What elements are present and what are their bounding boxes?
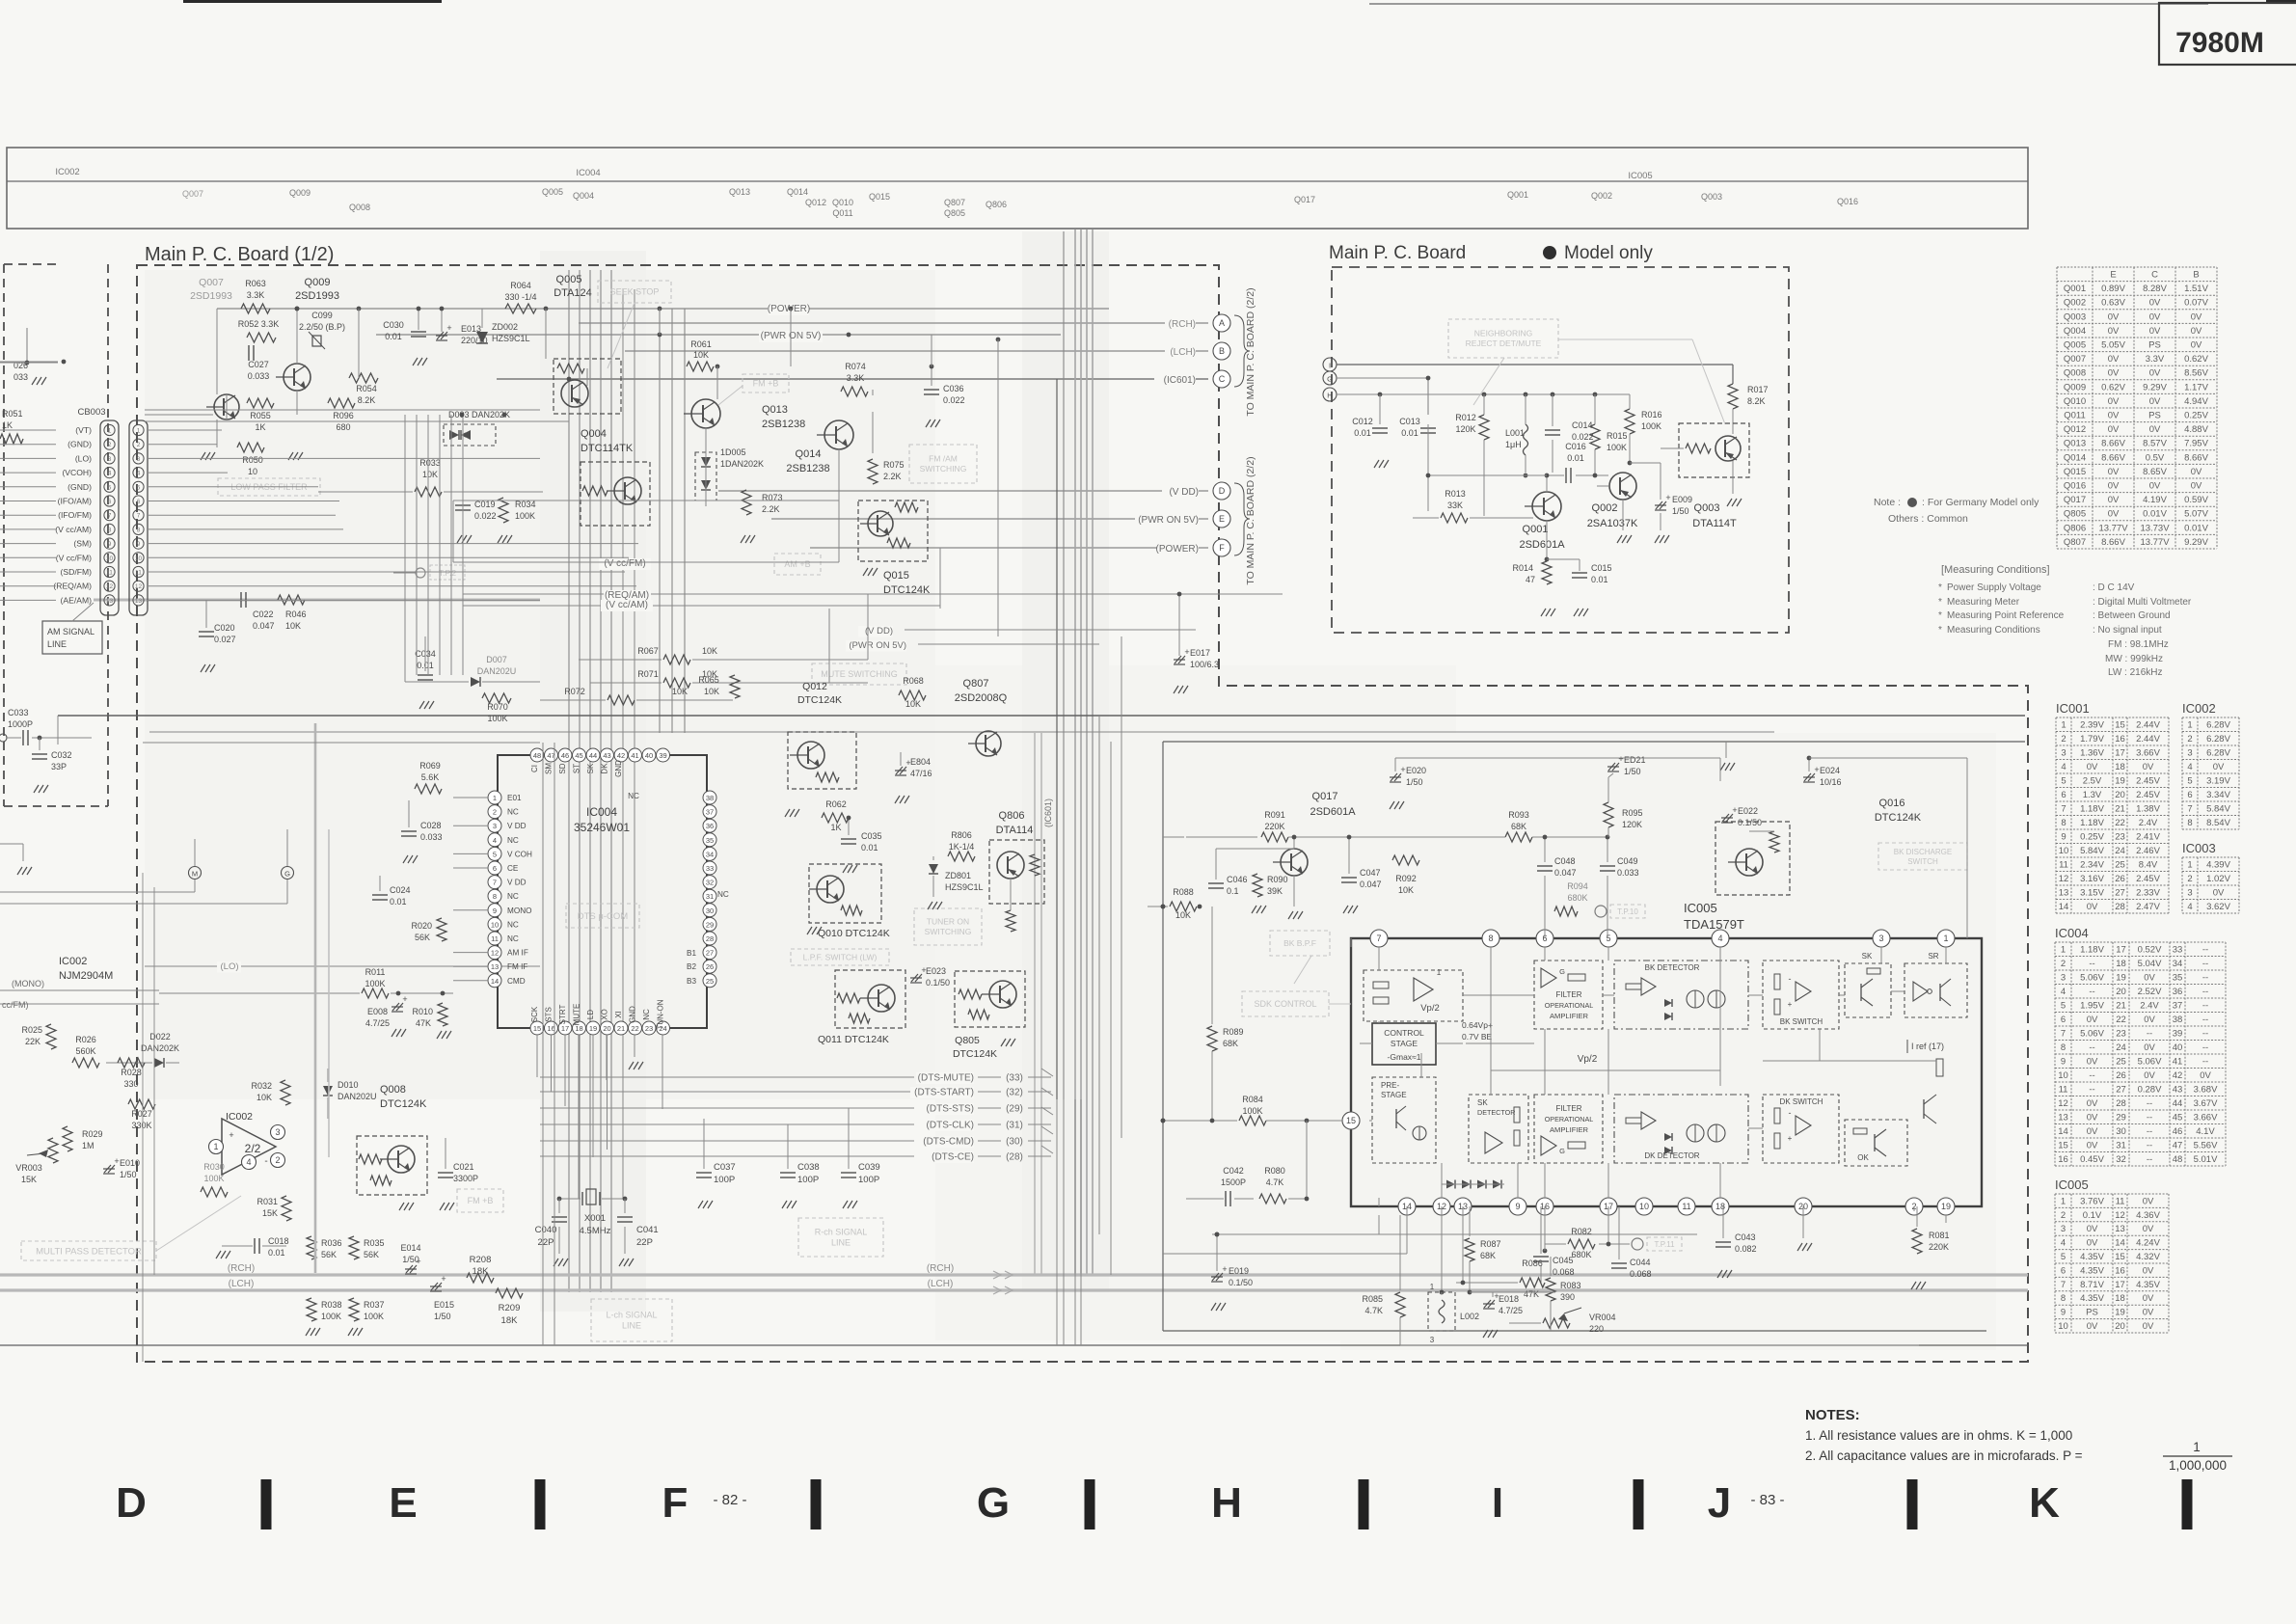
svg-text:1.3V: 1.3V xyxy=(2083,790,2102,800)
capacitor C021 3300P xyxy=(438,1138,478,1210)
resistor R209 18K xyxy=(496,1288,523,1326)
svg-text:3.3K: 3.3K xyxy=(847,373,865,383)
svg-text:16: 16 xyxy=(547,1024,554,1033)
wire vertical bundle bottom xyxy=(1057,1099,1081,1345)
svg-text:R025: R025 xyxy=(21,1025,42,1035)
svg-text:16: 16 xyxy=(2115,734,2125,744)
svg-text:17: 17 xyxy=(2115,1280,2125,1290)
svg-text:Q012: Q012 xyxy=(802,681,827,692)
svg-text:Q011: Q011 xyxy=(2064,411,2086,421)
wire IC005 bottom rail xyxy=(1379,1215,1919,1345)
svg-text:2.44V: 2.44V xyxy=(2136,719,2160,730)
capacitor E009 1/50 xyxy=(1655,463,1692,543)
svg-text:15K: 15K xyxy=(21,1175,37,1184)
svg-text:40: 40 xyxy=(2173,1042,2183,1053)
IC005 SK detector xyxy=(1469,1095,1528,1163)
svg-text:Q009: Q009 xyxy=(305,277,331,288)
capacitor E010 1/50 xyxy=(103,1156,140,1179)
svg-text:20: 20 xyxy=(2115,1321,2125,1332)
resistor R052 3.3K xyxy=(238,319,280,342)
svg-text:FILTER: FILTER xyxy=(1556,1104,1582,1113)
svg-text:+: + xyxy=(1814,765,1819,774)
svg-text:0.01: 0.01 xyxy=(1591,575,1608,584)
capacitor C045 0.068 xyxy=(1533,1206,1575,1283)
connector A xyxy=(1213,314,1230,332)
capacitor C024 0.01 xyxy=(372,876,411,907)
svg-text:7: 7 xyxy=(1376,934,1381,943)
svg-text:9: 9 xyxy=(108,541,112,548)
svg-text:4.24V: 4.24V xyxy=(2136,1238,2160,1249)
resistor R036 56K xyxy=(307,1236,342,1259)
svg-text:B: B xyxy=(2193,270,2199,281)
IC005 label xyxy=(1684,901,1744,932)
label 0.64Vp xyxy=(1462,1020,1493,1042)
capacitor C019 0.022 xyxy=(455,482,497,543)
node H xyxy=(1323,388,1337,401)
svg-text:1: 1 xyxy=(1437,968,1442,977)
svg-text:R080: R080 xyxy=(1264,1166,1285,1176)
svg-text:8: 8 xyxy=(2061,1293,2066,1304)
svg-text:--: -- xyxy=(2202,1015,2208,1025)
svg-text:8.66V: 8.66V xyxy=(2101,537,2125,548)
svg-text:*: * xyxy=(1938,625,1942,636)
svg-text:11: 11 xyxy=(1682,1202,1690,1211)
svg-text:4: 4 xyxy=(2187,902,2192,912)
resistor R071 10K xyxy=(590,669,868,688)
svg-text:R067: R067 xyxy=(637,646,659,656)
connector CB003 pin strips xyxy=(100,420,148,615)
svg-text:R054: R054 xyxy=(356,384,377,393)
svg-text:2.45V: 2.45V xyxy=(2136,874,2160,884)
svg-text:DAN202K: DAN202K xyxy=(141,1043,179,1053)
svg-text:STAGE: STAGE xyxy=(1391,1039,1418,1048)
svg-text:Q805: Q805 xyxy=(944,208,965,218)
IC004 voltage table xyxy=(2055,926,2226,1166)
svg-text:DTC114TK: DTC114TK xyxy=(581,443,634,454)
svg-text:0.027: 0.027 xyxy=(214,635,236,644)
svg-text:R031: R031 xyxy=(257,1197,278,1206)
svg-text:GND: GND xyxy=(629,1006,637,1023)
svg-text:13: 13 xyxy=(106,598,114,605)
svg-text:--: -- xyxy=(2202,972,2208,983)
svg-text:18: 18 xyxy=(2115,1293,2125,1304)
diode pair D003 DAN202K xyxy=(444,410,510,446)
svg-text:10/16: 10/16 xyxy=(1820,777,1842,787)
svg-text:0.01: 0.01 xyxy=(268,1248,285,1258)
note germany text xyxy=(1874,497,2039,525)
bus merge chevrons xyxy=(1041,1069,1053,1153)
ghost L-ch SIGNAL LINE xyxy=(591,1299,672,1341)
svg-text:100K: 100K xyxy=(365,979,385,988)
svg-text:D: D xyxy=(1219,486,1226,496)
capacitor E804 47/16 xyxy=(895,752,932,803)
svg-text:DTC124K: DTC124K xyxy=(1875,812,1922,824)
svg-text:31: 31 xyxy=(706,892,714,901)
svg-text:0V: 0V xyxy=(2143,1196,2154,1206)
svg-text:DK SWITCH: DK SWITCH xyxy=(1780,1097,1823,1106)
svg-text:LINE: LINE xyxy=(831,1238,851,1248)
diode D022 DAN202K xyxy=(106,1032,179,1068)
wire RCH to A xyxy=(579,319,1208,331)
svg-text:+: + xyxy=(1222,1264,1227,1274)
svg-text:3: 3 xyxy=(1878,934,1883,943)
svg-text:22: 22 xyxy=(2115,818,2125,828)
resistor R063 3.3K xyxy=(241,279,270,313)
svg-text:2.5V: 2.5V xyxy=(2083,775,2102,786)
svg-text:--: -- xyxy=(2089,1070,2094,1081)
svg-text:(POWER): (POWER) xyxy=(1156,544,1199,555)
svg-text:Q014: Q014 xyxy=(787,187,808,197)
svg-text:FM /AM: FM /AM xyxy=(929,454,958,464)
capacitor C032 33P xyxy=(32,738,72,793)
svg-text:TUN-ON: TUN-ON xyxy=(657,999,665,1029)
svg-text:E017: E017 xyxy=(1190,648,1210,658)
IC005 BK switch block xyxy=(1763,961,1839,1029)
capacitor C036 0.022 xyxy=(924,366,965,427)
resistor R011 100K xyxy=(159,967,453,998)
svg-text:--: -- xyxy=(2089,987,2094,997)
svg-text:10: 10 xyxy=(2059,846,2069,856)
svg-text:2.2K: 2.2K xyxy=(883,472,902,481)
svg-text:56K: 56K xyxy=(321,1250,337,1259)
svg-text:C014: C014 xyxy=(1572,420,1593,430)
svg-text:(PWR ON 5V): (PWR ON 5V) xyxy=(1138,515,1199,526)
svg-text:4.19V: 4.19V xyxy=(2143,495,2167,505)
svg-text:3.3V: 3.3V xyxy=(2146,354,2165,365)
svg-text:0V: 0V xyxy=(2087,1140,2098,1150)
svg-text:1K: 1K xyxy=(2,420,13,430)
svg-text:25: 25 xyxy=(2116,1056,2126,1067)
svg-text:2SD1993: 2SD1993 xyxy=(190,290,232,302)
node G xyxy=(282,829,294,880)
ground R050 right xyxy=(288,452,303,460)
svg-text:F: F xyxy=(1219,543,1225,553)
svg-text:8.71V: 8.71V xyxy=(2080,1280,2104,1290)
svg-text:18K: 18K xyxy=(501,1315,519,1326)
svg-text:(V DD): (V DD) xyxy=(1169,487,1199,498)
capacitor C047 0.047 xyxy=(1341,837,1382,913)
svg-text:0.022: 0.022 xyxy=(474,511,497,521)
svg-text:-: - xyxy=(264,1156,267,1167)
svg-text:Q009: Q009 xyxy=(289,188,311,198)
svg-text:0V: 0V xyxy=(2200,1070,2211,1081)
svg-text:FM IF: FM IF xyxy=(507,962,527,971)
svg-text:4: 4 xyxy=(137,471,141,477)
capacitor C040 22P xyxy=(535,1199,568,1266)
svg-text:R017: R017 xyxy=(1747,385,1769,394)
svg-text:10K: 10K xyxy=(285,621,301,631)
wire DTS risers xyxy=(537,1035,608,1150)
svg-text:0.7V BE: 0.7V BE xyxy=(1462,1032,1493,1042)
resistor R065 10K xyxy=(698,675,740,698)
AE/AM ghost line xyxy=(94,599,540,602)
svg-text:19: 19 xyxy=(2116,972,2126,983)
svg-text:19: 19 xyxy=(2115,775,2125,786)
svg-text:3: 3 xyxy=(108,456,112,463)
svg-text:29: 29 xyxy=(706,920,714,929)
svg-text:2: 2 xyxy=(2187,874,2192,884)
capacitor E014 1/50 xyxy=(400,1243,420,1274)
svg-text:CONTROL: CONTROL xyxy=(1384,1028,1424,1038)
svg-text:2.2/50 (B.P): 2.2/50 (B.P) xyxy=(299,322,345,332)
svg-text:+: + xyxy=(402,994,407,1004)
svg-text:K: K xyxy=(2029,1479,2060,1527)
svg-text:Q015: Q015 xyxy=(2064,467,2086,477)
germany model dashed box xyxy=(1332,267,1789,633)
svg-text:R064: R064 xyxy=(510,281,531,290)
resistor R062 1K xyxy=(822,799,849,832)
ghost FM +B 2 xyxy=(457,1189,503,1212)
resistor R054 8.2K xyxy=(349,373,378,405)
svg-text:R026: R026 xyxy=(75,1035,96,1044)
transistor Q003 xyxy=(1630,423,1749,529)
svg-text:(DTS-STS): (DTS-STS) xyxy=(927,1104,974,1115)
svg-text:6: 6 xyxy=(493,864,497,873)
svg-text:: For Germany Model only: : For Germany Model only xyxy=(1922,497,2039,508)
svg-text:0V: 0V xyxy=(2108,509,2120,520)
svg-text:2SD1993: 2SD1993 xyxy=(295,290,339,302)
svg-text:1: 1 xyxy=(1943,934,1948,943)
svg-text:9.29V: 9.29V xyxy=(2143,382,2167,392)
svg-text:25: 25 xyxy=(706,977,714,986)
svg-text:6: 6 xyxy=(2187,790,2192,800)
svg-text:--: -- xyxy=(2202,1028,2208,1039)
svg-text:5.07V: 5.07V xyxy=(2184,509,2208,520)
svg-text:5: 5 xyxy=(2061,1252,2066,1262)
svg-text:2: 2 xyxy=(2061,1210,2066,1221)
svg-text:68K: 68K xyxy=(1511,822,1526,831)
svg-text:R065: R065 xyxy=(698,675,719,685)
svg-text:27: 27 xyxy=(2116,1084,2126,1095)
svg-text:1: 1 xyxy=(137,428,141,435)
svg-text:NC: NC xyxy=(507,920,519,929)
svg-text:AMPLIFIER: AMPLIFIER xyxy=(1550,1125,1589,1134)
svg-text:5: 5 xyxy=(1606,934,1610,943)
svg-text:43: 43 xyxy=(603,751,610,760)
svg-text:14: 14 xyxy=(2115,1238,2125,1249)
gray smudge bus left xyxy=(315,723,329,1273)
IC005 SR cell xyxy=(1904,952,1967,1017)
svg-text:E: E xyxy=(2110,270,2116,281)
svg-text:NC: NC xyxy=(507,808,519,817)
svg-text:T.P.10: T.P.10 xyxy=(1617,907,1638,916)
svg-text:330 -1/4: 330 -1/4 xyxy=(504,292,536,302)
svg-text:C035: C035 xyxy=(861,831,882,841)
svg-text:35246W01: 35246W01 xyxy=(574,821,630,834)
svg-text:8.66V: 8.66V xyxy=(2101,439,2125,449)
svg-text:28: 28 xyxy=(2116,1098,2126,1109)
svg-text:680: 680 xyxy=(336,422,350,432)
svg-text:Q002: Q002 xyxy=(2064,298,2086,309)
svg-text:20: 20 xyxy=(2115,790,2125,800)
svg-text:(V cc/AM): (V cc/AM) xyxy=(55,525,92,534)
svg-text:2SB1238: 2SB1238 xyxy=(762,419,805,430)
svg-text:C020: C020 xyxy=(214,623,235,633)
svg-text:8.2K: 8.2K xyxy=(1747,396,1766,406)
svg-text:100K: 100K xyxy=(1242,1106,1262,1116)
resistor R074 3.3K xyxy=(841,362,868,396)
svg-text:C024: C024 xyxy=(390,885,411,895)
svg-text:C042: C042 xyxy=(1223,1166,1244,1176)
resistor R082 680K xyxy=(1545,1227,1682,1259)
resistor R020 56K xyxy=(411,918,446,942)
svg-text:0.01V: 0.01V xyxy=(2143,509,2167,520)
svg-text:(V cc/FM): (V cc/FM) xyxy=(604,558,645,569)
svg-text:0.1: 0.1 xyxy=(1227,886,1239,896)
resistor R064 330-1/4 xyxy=(504,281,536,313)
svg-text:Q013: Q013 xyxy=(762,404,788,416)
svg-text:4: 4 xyxy=(2187,762,2192,772)
svg-text:Q010: Q010 xyxy=(832,198,853,207)
svg-text:15: 15 xyxy=(533,1024,541,1033)
svg-text:10K: 10K xyxy=(702,646,717,656)
svg-text:C018: C018 xyxy=(268,1236,289,1246)
svg-text:15: 15 xyxy=(2115,719,2125,730)
svg-text:--: -- xyxy=(2202,1042,2208,1053)
svg-text:AM IF: AM IF xyxy=(507,949,528,958)
svg-text:R072: R072 xyxy=(564,687,585,696)
svg-text:220K: 220K xyxy=(1929,1242,1949,1252)
svg-text:2.52V: 2.52V xyxy=(2138,987,2162,997)
svg-text:E022: E022 xyxy=(1738,806,1758,816)
svg-text:4.36V: 4.36V xyxy=(2136,1210,2160,1221)
svg-text:--: -- xyxy=(2147,1112,2152,1123)
svg-text:100K: 100K xyxy=(203,1174,224,1183)
svg-text:NC: NC xyxy=(717,890,729,899)
svg-text:19: 19 xyxy=(1941,1202,1951,1211)
svg-text:R075: R075 xyxy=(883,460,905,470)
svg-text:19: 19 xyxy=(589,1024,597,1033)
top interconnect band xyxy=(7,148,2028,229)
svg-text:6: 6 xyxy=(2061,1265,2066,1276)
svg-text:0V: 0V xyxy=(2144,1070,2155,1081)
node I xyxy=(1323,358,1337,371)
svg-text:*: * xyxy=(1938,582,1942,593)
svg-text:Q014: Q014 xyxy=(2064,452,2086,463)
svg-text:0V: 0V xyxy=(2144,972,2155,983)
svg-text:STRT: STRT xyxy=(558,1005,567,1025)
svg-text:E804: E804 xyxy=(910,757,931,767)
svg-text:10: 10 xyxy=(2058,1070,2068,1081)
ghost BK DISCHARGE xyxy=(1878,843,1967,870)
zener ZD002 HZS9C1L xyxy=(476,309,530,343)
capacitor C035 0.01 xyxy=(841,816,882,873)
svg-text:--: -- xyxy=(2202,959,2208,969)
resistor R080 4.7K xyxy=(1259,1121,1307,1204)
svg-text:R806: R806 xyxy=(951,830,972,840)
svg-text:R084: R084 xyxy=(1242,1095,1263,1104)
svg-text:8.28V: 8.28V xyxy=(2143,284,2167,294)
svg-text:Q016: Q016 xyxy=(1879,798,1905,809)
svg-text:41: 41 xyxy=(631,751,638,760)
svg-text:CMD: CMD xyxy=(507,977,526,986)
svg-text:26: 26 xyxy=(2116,1070,2126,1081)
svg-text:R086: R086 xyxy=(1522,1259,1543,1268)
resistor R016 100K xyxy=(1625,394,1662,465)
IC005 BK detector block xyxy=(1614,961,1748,1029)
svg-text:0.033: 0.033 xyxy=(1617,868,1639,878)
capacitor C013 0.01 xyxy=(1399,417,1436,511)
resistor R806 1K-1/4 xyxy=(948,830,975,861)
svg-text:C012: C012 xyxy=(1352,417,1373,426)
measuring conditions text xyxy=(1938,564,2192,678)
svg-text:0.047: 0.047 xyxy=(1360,880,1382,889)
IC005 diode string xyxy=(1442,1180,1504,1189)
svg-text:R089: R089 xyxy=(1223,1027,1244,1037)
DTS control lines xyxy=(540,1072,1051,1163)
svg-text:11: 11 xyxy=(135,570,142,577)
svg-text:(29): (29) xyxy=(1006,1104,1023,1115)
svg-text:21: 21 xyxy=(2116,1000,2126,1011)
svg-text:C049: C049 xyxy=(1617,856,1638,866)
svg-text:--: -- xyxy=(2202,987,2208,997)
svg-text:XI: XI xyxy=(614,1011,623,1018)
capacitor C012 0.01 xyxy=(1352,394,1389,468)
wire Q005 to seek xyxy=(608,303,635,368)
svg-text:0V: 0V xyxy=(2087,1015,2098,1025)
svg-text:C043: C043 xyxy=(1735,1232,1756,1242)
capacitor C042 1500P xyxy=(1186,1166,1254,1206)
svg-text:Q017: Q017 xyxy=(1312,791,1338,802)
svg-text:0V: 0V xyxy=(2087,1126,2098,1137)
svg-text:0.01: 0.01 xyxy=(1401,428,1418,438)
IC005 SK cell xyxy=(1845,952,1891,1017)
svg-text:(32): (32) xyxy=(1006,1088,1023,1098)
svg-text:100P: 100P xyxy=(858,1175,879,1185)
svg-text:TO MAIN P. C. BOARD (2/2): TO MAIN P. C. BOARD (2/2) xyxy=(1245,456,1256,584)
svg-text:Q008: Q008 xyxy=(380,1084,406,1096)
svg-text:FM +B: FM +B xyxy=(468,1196,494,1205)
svg-text:R096: R096 xyxy=(333,411,354,420)
svg-text:0.068: 0.068 xyxy=(1553,1267,1575,1277)
svg-text:0.64Vp+: 0.64Vp+ xyxy=(1462,1020,1493,1030)
svg-text:AM SIGNAL: AM SIGNAL xyxy=(47,627,95,636)
svg-text:1: 1 xyxy=(2061,719,2066,730)
svg-text:1,000,000: 1,000,000 xyxy=(2169,1458,2227,1473)
svg-text:DTA114: DTA114 xyxy=(996,825,1034,836)
svg-text:R088: R088 xyxy=(1173,887,1194,897)
svg-text:0.01: 0.01 xyxy=(1567,453,1584,463)
svg-text:Power Supply Voltage: Power Supply Voltage xyxy=(1947,582,2041,593)
svg-text:E: E xyxy=(389,1479,417,1527)
svg-text:0.01V: 0.01V xyxy=(2184,523,2208,533)
svg-text:47: 47 xyxy=(547,751,554,760)
svg-text:5.6K: 5.6K xyxy=(421,772,440,782)
svg-text:R093: R093 xyxy=(1508,810,1529,820)
svg-text:14: 14 xyxy=(2058,1126,2068,1137)
svg-text:(DTS-CE): (DTS-CE) xyxy=(932,1152,974,1163)
svg-text:1.36V: 1.36V xyxy=(2080,747,2104,758)
connector F xyxy=(1213,539,1230,556)
svg-text:8.56V: 8.56V xyxy=(2184,368,2208,379)
wires Q007 to bundle xyxy=(145,410,569,421)
svg-text:3: 3 xyxy=(493,822,497,830)
transistor Q806 xyxy=(989,810,1044,932)
svg-text:--: -- xyxy=(2147,1098,2152,1109)
resistor R025 22K xyxy=(21,1024,56,1049)
svg-text:(LO): (LO) xyxy=(75,453,92,463)
svg-text:HZS9C1L: HZS9C1L xyxy=(945,882,984,892)
svg-text:1K-1/4: 1K-1/4 xyxy=(949,842,975,852)
resistor R037 100K xyxy=(348,1298,385,1336)
svg-text:GND: GND xyxy=(614,760,623,777)
svg-text:IC005: IC005 xyxy=(1628,171,1652,181)
svg-text:2.33V: 2.33V xyxy=(2136,887,2160,898)
svg-text:(V DD): (V DD) xyxy=(865,626,893,636)
transistor Q005 label xyxy=(554,274,592,299)
svg-text:12: 12 xyxy=(135,583,143,590)
svg-text:1: 1 xyxy=(213,1142,218,1151)
